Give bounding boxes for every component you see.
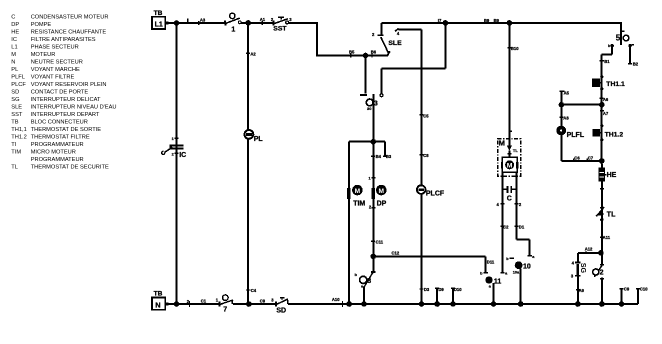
svg-text:C: C <box>507 195 512 202</box>
svg-text:TIM: TIM <box>11 149 21 155</box>
svg-text:1: 1 <box>216 298 219 303</box>
svg-text:VOYANT RESERVOIR PLEIN: VOYANT RESERVOIR PLEIN <box>31 82 107 88</box>
svg-text:30: 30 <box>367 106 372 111</box>
svg-text:11: 11 <box>494 278 502 285</box>
svg-text:b: b <box>608 44 611 48</box>
svg-text:b: b <box>355 273 358 277</box>
svg-text:A5: A5 <box>564 90 570 95</box>
svg-text:TL: TL <box>513 148 518 153</box>
svg-text:C4: C4 <box>251 288 257 293</box>
svg-text:C11: C11 <box>376 239 384 244</box>
svg-text:N: N <box>11 59 15 65</box>
svg-text:3: 3 <box>374 100 378 107</box>
svg-text:C: C <box>11 14 15 20</box>
svg-text:TH1.1: TH1.1 <box>606 81 625 88</box>
svg-text:M: M <box>379 188 385 195</box>
svg-text:TIM: TIM <box>353 201 365 208</box>
svg-text:MOTEUR: MOTEUR <box>31 52 56 58</box>
svg-text:4: 4 <box>497 202 500 207</box>
svg-text:MICRO MOTEUR: MICRO MOTEUR <box>31 149 76 155</box>
svg-text:A8: A8 <box>563 115 569 120</box>
svg-text:PLFL: PLFL <box>11 74 25 80</box>
svg-text:2: 2 <box>369 204 372 209</box>
svg-text:A9: A9 <box>579 288 585 293</box>
svg-text:HE: HE <box>607 172 617 179</box>
svg-text:TB: TB <box>154 291 163 298</box>
svg-text:TB: TB <box>154 10 163 17</box>
svg-text:2: 2 <box>172 153 174 157</box>
svg-text:THERMOSTAT DE SECURITE: THERMOSTAT DE SECURITE <box>31 164 109 170</box>
svg-text:B9: B9 <box>484 18 490 23</box>
svg-text:B3: B3 <box>386 154 392 159</box>
svg-text:HE: HE <box>11 29 19 35</box>
svg-text:PL: PL <box>254 136 264 143</box>
svg-text:L1: L1 <box>11 44 17 50</box>
svg-text:SST: SST <box>11 112 23 118</box>
svg-text:B5: B5 <box>349 49 355 54</box>
svg-text:TH1,1: TH1,1 <box>11 127 26 133</box>
svg-text:IC: IC <box>11 37 17 43</box>
svg-text:D1: D1 <box>519 225 525 230</box>
svg-text:PROGRAMMATEUR: PROGRAMMATEUR <box>31 157 84 163</box>
svg-text:SD: SD <box>276 308 286 315</box>
svg-text:C12: C12 <box>392 251 400 256</box>
svg-text:a: a <box>489 285 492 289</box>
svg-text:3: 3 <box>289 17 292 22</box>
svg-text:M: M <box>499 138 505 147</box>
svg-text:C10: C10 <box>640 287 648 292</box>
svg-text:INTERRUPTEUR NIVEAU D'EAU: INTERRUPTEUR NIVEAU D'EAU <box>31 104 117 110</box>
svg-text:b: b <box>480 272 483 276</box>
svg-text:PLCF: PLCF <box>11 82 26 88</box>
svg-text:TL: TL <box>11 164 18 170</box>
svg-text:C1: C1 <box>201 298 207 303</box>
svg-text:3: 3 <box>571 274 574 279</box>
svg-text:DP: DP <box>377 201 387 208</box>
svg-text:SLE: SLE <box>388 40 402 47</box>
svg-text:L1: L1 <box>155 22 163 29</box>
svg-text:2: 2 <box>519 202 522 207</box>
svg-text:THERMOSTAT FILTRE: THERMOSTAT FILTRE <box>31 134 90 140</box>
svg-text:5: 5 <box>616 34 621 43</box>
svg-text:b: b <box>506 257 509 261</box>
svg-text:4: 4 <box>572 261 575 266</box>
svg-text:BLOC CONNECTEUR: BLOC CONNECTEUR <box>31 119 88 125</box>
svg-text:3: 3 <box>271 298 274 303</box>
svg-text:B1: B1 <box>604 59 610 64</box>
svg-text:A12: A12 <box>585 247 593 252</box>
svg-text:C5: C5 <box>423 113 429 118</box>
svg-text:A3: A3 <box>200 18 206 23</box>
svg-text:VOYANT MARCHE: VOYANT MARCHE <box>31 67 80 73</box>
svg-text:PL: PL <box>11 67 18 73</box>
svg-text:2: 2 <box>372 32 375 37</box>
svg-text:C6: C6 <box>574 156 580 161</box>
svg-text:NEUTRE SECTEUR: NEUTRE SECTEUR <box>31 59 83 65</box>
svg-text:D3: D3 <box>424 287 430 292</box>
svg-text:FILTRE ANTIPARASITES: FILTRE ANTIPARASITES <box>31 37 96 43</box>
svg-text:a: a <box>532 255 535 259</box>
svg-text:PROGRAMMATEUR: PROGRAMMATEUR <box>31 142 84 148</box>
svg-text:a: a <box>505 272 508 276</box>
svg-text:M: M <box>11 52 16 58</box>
svg-text:10a: 10a <box>513 270 520 274</box>
svg-text:TB: TB <box>11 119 18 125</box>
svg-text:D11: D11 <box>487 259 495 264</box>
svg-text:IC: IC <box>179 152 186 159</box>
svg-text:PLCF: PLCF <box>426 190 445 197</box>
svg-text:C2: C2 <box>503 225 509 230</box>
svg-text:PHASE SECTEUR: PHASE SECTEUR <box>31 44 79 50</box>
svg-text:TH1.2: TH1.2 <box>605 131 624 138</box>
svg-text:TL: TL <box>607 211 616 218</box>
svg-text:1: 1 <box>368 176 370 180</box>
svg-text:THERMOSTAT DE SORTIE: THERMOSTAT DE SORTIE <box>31 127 102 133</box>
svg-text:B9: B9 <box>494 18 500 23</box>
svg-text:M: M <box>507 162 513 169</box>
svg-text:N: N <box>155 301 160 310</box>
svg-text:A11: A11 <box>603 235 611 240</box>
svg-text:M: M <box>355 188 361 195</box>
svg-text:7: 7 <box>223 306 227 313</box>
svg-text:1: 1 <box>231 26 235 33</box>
svg-text:B10: B10 <box>511 46 519 51</box>
svg-text:VOYANT FILTRE: VOYANT FILTRE <box>31 74 75 80</box>
svg-text:4: 4 <box>397 31 400 36</box>
svg-text:8: 8 <box>367 278 371 285</box>
svg-text:POMPE: POMPE <box>31 22 52 28</box>
svg-text:A6: A6 <box>603 97 609 102</box>
svg-text:DP: DP <box>11 22 19 28</box>
svg-text:INTERRUPTEUR DEPART: INTERRUPTEUR DEPART <box>31 112 100 118</box>
svg-text:C9: C9 <box>260 298 266 303</box>
svg-text:B4: B4 <box>376 154 382 159</box>
svg-text:2: 2 <box>600 270 604 277</box>
svg-text:1: 1 <box>172 137 174 141</box>
svg-text:A2: A2 <box>250 51 256 56</box>
svg-text:A10: A10 <box>332 297 340 302</box>
svg-text:CONTACT DE PORTE: CONTACT DE PORTE <box>31 89 89 95</box>
svg-text:C8: C8 <box>423 153 429 158</box>
svg-text:C7: C7 <box>588 156 594 161</box>
svg-text:A7: A7 <box>603 111 609 116</box>
svg-text:SG: SG <box>579 263 586 274</box>
svg-text:CONDENSASTEUR MOTEUR: CONDENSASTEUR MOTEUR <box>31 14 109 20</box>
svg-text:C9: C9 <box>624 287 630 292</box>
svg-text:SG: SG <box>11 97 19 103</box>
svg-text:RESISTANCE CHAUFFANTE: RESISTANCE CHAUFFANTE <box>31 29 107 35</box>
svg-text:D9: D9 <box>438 287 444 292</box>
svg-text:D10: D10 <box>454 287 462 292</box>
svg-text:SD: SD <box>11 89 19 95</box>
svg-text:B2: B2 <box>633 62 639 67</box>
svg-text:SLE: SLE <box>11 104 22 110</box>
svg-text:SST: SST <box>273 26 287 33</box>
svg-text:TI: TI <box>11 142 16 148</box>
svg-text:INTERRUPTEUR DELICAT: INTERRUPTEUR DELICAT <box>31 97 101 103</box>
svg-text:10: 10 <box>523 264 531 271</box>
svg-text:PLFL: PLFL <box>567 132 585 139</box>
svg-text:TH1.2: TH1.2 <box>11 134 26 140</box>
